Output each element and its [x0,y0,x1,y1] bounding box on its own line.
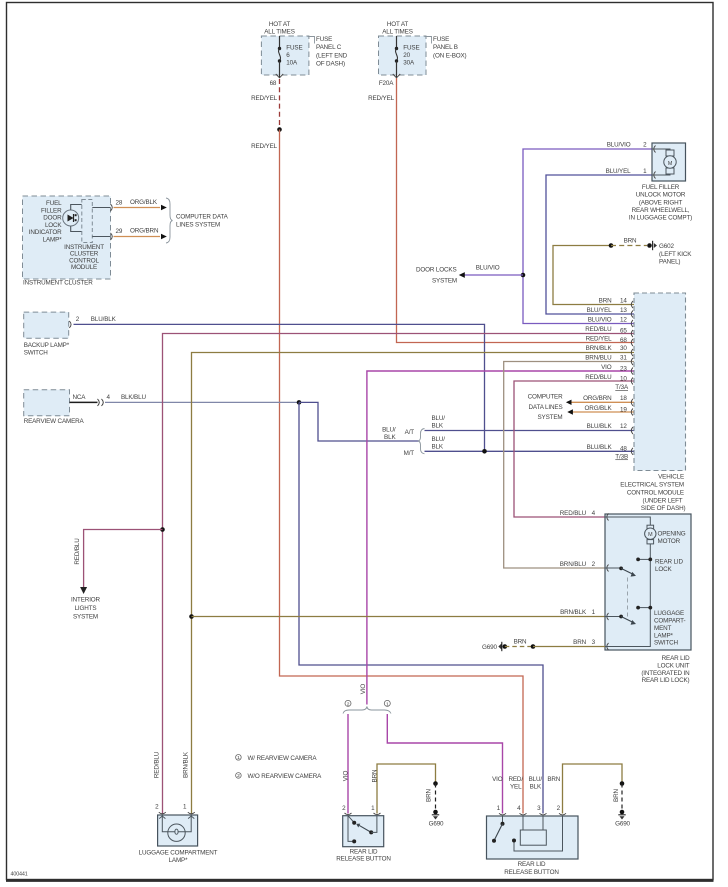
svg-text:(ON E-BOX): (ON E-BOX) [433,52,467,59]
svg-text:BRN: BRN [599,297,612,304]
svg-text:MOTOR: MOTOR [658,538,681,545]
svg-text:BLU/: BLU/ [529,776,543,783]
svg-text:BLU/VIO: BLU/VIO [607,142,631,149]
svg-text:RED/YEL: RED/YEL [251,143,278,150]
svg-text:(LEFT END: (LEFT END [316,52,348,59]
module pin connectors [631,301,633,455]
A/T M/T split brace [382,427,424,457]
svg-text:30: 30 [620,345,627,352]
svg-text:OF DASH): OF DASH) [316,61,345,68]
wire RED/BLU module pin 65 long run to lamp [163,334,635,814]
instrument cluster outer box [23,196,111,287]
junction BRN/BLK branch [189,614,194,619]
svg-text:23: 23 [620,365,627,372]
svg-text:BLU/YEL: BLU/YEL [606,168,631,175]
svg-text:BRN: BRN [613,788,620,801]
wire BRN/BLK branch to rear lid lock pin 1 [192,616,606,618]
svg-text:REARVIEW CAMERA: REARVIEW CAMERA [24,418,85,425]
wire BRN button 1 to ground [377,764,438,814]
svg-text:BRN/BLK: BRN/BLK [183,751,190,778]
svg-text:LUGGAGE COMPARTMENT: LUGGAGE COMPARTMENT [139,849,218,856]
rear lid release button 2 (w/o camera) [487,805,579,859]
svg-text:LAMP*: LAMP* [169,857,189,864]
svg-text:BRN/BLU: BRN/BLU [560,561,587,568]
svg-text:VIO: VIO [601,364,612,371]
svg-text:PANEL): PANEL) [659,259,680,266]
svg-text:ORG/BRN: ORG/BRN [583,395,612,402]
luggage compartment lamp switch [605,606,686,647]
fuse F6 symbol [270,36,284,87]
svg-text:LUGGAGE: LUGGAGE [654,610,684,617]
VIO split brace with options [343,700,391,713]
svg-text:COMPUTER DATA: COMPUTER DATA [176,213,229,220]
junction M/T with backup switch wire [482,449,487,454]
svg-text:LOCK: LOCK [655,566,672,573]
ground G690 for rear lid lock pin 3 [482,638,605,651]
opening motor symbol (rear lid) [605,517,686,545]
fuel filler unlock motor label [629,184,692,221]
svg-text:(UNDER LEFT: (UNDER LEFT [643,498,683,505]
vehicle electrical system control module box [620,293,685,512]
wire BLU/BLK A/T branch to module pin 12 [425,415,635,431]
button 2 labels [492,776,561,876]
button 2 switch internals [492,816,563,851]
junction RED/BLU interior lights branch [160,527,165,532]
svg-text:DOOR: DOOR [43,215,62,222]
svg-text:SIDE OF DASH): SIDE OF DASH) [641,505,686,512]
computer data lines system brace and label (left) [166,198,229,243]
rearview camera box [24,390,87,426]
wire BLU/VIO branch to door locks system [416,264,523,284]
svg-text:ALL TIMES: ALL TIMES [382,28,413,35]
wire ORG/BLK pin 28 to computer data lines [114,199,167,211]
svg-text:SWITCH: SWITCH [654,640,679,647]
wire BLU/BLK jog to A/T-M/T brace [299,402,420,441]
rear lid release button 1 (w/ camera) [342,805,384,847]
svg-text:FUEL: FUEL [46,200,62,207]
wire BRN button 2 to ground [563,764,625,814]
wire BRN/BLU module pin 31 to rear lid lock pin 2 [504,362,634,569]
svg-text:CONTROL MODULE: CONTROL MODULE [627,490,684,497]
fuse panel C box (fuse 6) [261,21,347,75]
wire BRN/BLK module pin 30 long run to lamp [192,353,635,814]
svg-text:LIGHTS: LIGHTS [75,605,97,612]
option legend [236,755,323,780]
svg-text:48: 48 [620,446,627,453]
svg-text:REAR LID: REAR LID [518,861,546,868]
internal common wire to pin 3 [605,544,650,647]
svg-text:65: 65 [620,327,627,334]
svg-text:BRN: BRN [624,238,637,245]
wire RED/YEL solid down-right to release button pin 4 [251,130,523,814]
wire BLK lead from camera [70,394,111,406]
svg-text:BACKUP LAMP*: BACKUP LAMP* [24,342,70,349]
svg-text:68: 68 [620,337,627,344]
svg-text:29: 29 [116,228,123,235]
junction at camera wire [297,400,302,405]
wire pin 28 lead inside cluster [92,199,123,211]
wire ORG/BRN module pin 18 to computer data lines [566,400,634,405]
svg-text:400441: 400441 [11,872,28,878]
svg-text:RED/BLU: RED/BLU [585,326,612,333]
ground symbol G690 (button 1) [429,815,444,828]
wire BRN module pin 14 to G602 [553,238,647,305]
rear lid lock pin labels [560,510,596,646]
svg-text:COMPUTER: COMPUTER [528,394,563,401]
backup lamp switch box [24,312,80,356]
svg-text:BLU/VIO: BLU/VIO [476,264,500,271]
svg-text:OPENING: OPENING [658,531,686,538]
svg-text:BRN/BLK: BRN/BLK [560,609,587,616]
svg-text:12: 12 [620,316,627,323]
svg-text:FILLER: FILLER [41,207,62,214]
svg-text:RELEASE BUTTON: RELEASE BUTTON [504,869,559,876]
svg-text:FUSE: FUSE [286,45,302,52]
svg-text:M: M [668,161,673,167]
svg-text:1: 1 [386,702,389,708]
wire VIO module pin 23 down to split [360,371,634,705]
svg-text:RED/YEL: RED/YEL [368,95,395,102]
svg-text:PANEL B: PANEL B [433,44,458,51]
svg-text:VIO: VIO [343,771,350,782]
svg-text:BRN/BLU: BRN/BLU [585,354,612,361]
fuel filler door lock indicator lamp (LED) [63,210,79,226]
svg-text:HOT AT: HOT AT [269,21,291,28]
wire BLU/YEL module pin 13 to fuel filler motor pin 1 [546,175,652,314]
wire BLU/VIO module pin 12 to fuel filler motor pin 2 [523,149,652,324]
svg-text:BLU/VIO: BLU/VIO [588,316,612,323]
svg-text:(LEFT KICK: (LEFT KICK [659,251,692,258]
svg-text:LOCK UNIT: LOCK UNIT [657,662,690,669]
svg-text:G690: G690 [615,820,630,827]
svg-text:NCA: NCA [73,394,87,401]
svg-text:DOOR LOCKS: DOOR LOCKS [416,267,457,274]
svg-text:M: M [648,532,653,538]
fuel filler unlock motor box [652,143,686,181]
opening motor symbol M (fuel filler) [664,150,676,174]
svg-text:REAR LID LOCK): REAR LID LOCK) [642,677,690,684]
svg-text:YEL: YEL [510,784,522,791]
wire RED/BLU branch to interior lights system [71,530,162,621]
svg-text:FUEL FILLER: FUEL FILLER [642,184,680,191]
svg-text:10A: 10A [286,59,298,66]
svg-text:14: 14 [620,297,627,304]
svg-text:REAR WHEELWELL,: REAR WHEELWELL, [632,207,690,214]
svg-text:BLU/BLK: BLU/BLK [587,444,613,451]
luggage lamp labels [139,751,218,864]
svg-text:BLK/BLU: BLK/BLU [121,394,146,401]
svg-text:MODULE: MODULE [71,264,97,271]
svg-text:RED/BLU: RED/BLU [154,751,161,778]
svg-text:G690: G690 [482,644,497,651]
svg-text:SWITCH: SWITCH [24,349,49,356]
svg-text:VEHICLE: VEHICLE [658,474,684,481]
lamp wiring to control module [71,205,82,232]
svg-text:BLK: BLK [530,784,542,791]
wire RED/YEL dashed from fuse 6 [251,79,279,129]
wire BLU/BLK down to release button pin 3 [299,402,543,813]
svg-text:W/O REARVIEW CAMERA: W/O REARVIEW CAMERA [248,773,323,780]
svg-text:13: 13 [620,307,627,314]
svg-text:A/T: A/T [405,429,415,436]
svg-text:REAR LID: REAR LID [350,848,378,855]
svg-text:REAR LID: REAR LID [655,558,683,565]
button 1 labels [336,769,391,863]
svg-text:FUSE: FUSE [316,36,332,43]
svg-text:SYSTEM: SYSTEM [73,614,98,621]
svg-text:W/ REARVIEW CAMERA: W/ REARVIEW CAMERA [248,755,318,762]
svg-text:FUSE: FUSE [403,45,419,52]
svg-text:ORG/BLK: ORG/BLK [130,199,158,206]
svg-text:SYSTEM: SYSTEM [538,414,563,421]
svg-text:ORG/BRN: ORG/BRN [130,228,159,235]
svg-text:RED/YEL: RED/YEL [251,95,278,102]
instrument cluster control module inner box [64,200,104,272]
wire RED/BLU module pin 10 to rear lid lock pin 4 [514,381,634,517]
svg-text:BLU/BLK: BLU/BLK [91,316,117,323]
svg-text:LINES SYSTEM: LINES SYSTEM [176,222,220,229]
module pin labels [583,297,629,460]
svg-text:BLK: BLK [432,423,444,430]
button 1 switch internals [348,816,377,844]
ground symbol G690 (button 2) [615,815,630,828]
diagram number 400441 [11,872,28,878]
wire BLU/BLK from backup lamp switch to M/T junction [74,316,485,451]
svg-text:10: 10 [620,375,627,382]
wire ORG/BRN pin 29 to computer data lines [114,228,167,240]
svg-text:30A: 30A [403,59,415,66]
svg-text:COMPART-: COMPART- [654,618,686,625]
wire RED/YEL from fuse 20 to module pin 68 [368,78,634,343]
svg-text:RED/BLU: RED/BLU [74,538,81,565]
svg-text:INTERIOR: INTERIOR [71,597,100,604]
svg-text:LAMP*: LAMP* [654,632,674,639]
svg-text:2: 2 [237,773,240,779]
svg-text:BLK: BLK [432,443,444,450]
svg-text:19: 19 [620,406,627,413]
svg-text:REAR LID: REAR LID [662,655,690,662]
svg-text:BLU/YEL: BLU/YEL [587,307,612,314]
svg-text:18: 18 [620,395,627,402]
svg-text:28: 28 [116,199,123,206]
svg-text:68: 68 [270,80,277,87]
svg-text:VIO: VIO [360,684,367,695]
svg-text:BLU/: BLU/ [382,427,396,434]
svg-text:T/3A: T/3A [615,384,629,391]
svg-text:G690: G690 [429,820,444,827]
svg-text:SYSTEM: SYSTEM [432,277,457,284]
svg-text:BRN: BRN [573,639,586,646]
svg-text:FUSE: FUSE [433,36,449,43]
svg-text:20: 20 [403,52,410,59]
svg-text:T/3B: T/3B [615,453,628,460]
svg-text:MENT: MENT [654,625,672,632]
svg-text:F20A: F20A [379,80,394,87]
svg-text:RED/BLU: RED/BLU [585,374,612,381]
svg-text:ELECTRICAL SYSTEM: ELECTRICAL SYSTEM [620,482,684,489]
rear lid lock unit box [605,514,691,651]
wire ORG/BLK module pin 19 to computer data lines [567,409,634,414]
wire BLU/BLK M/T branch to module pin 48 [425,436,635,452]
svg-text:DATA LINES: DATA LINES [529,404,563,411]
svg-text:ALL TIMES: ALL TIMES [264,28,295,35]
svg-text:INDICATOR: INDICATOR [29,229,62,236]
mechanical link dashed [627,578,629,618]
wire pin 29 lead inside cluster [92,228,123,240]
wire VIO branch 1 to release button (w/o camera) [387,714,502,814]
svg-text:1: 1 [237,755,240,761]
svg-text:(INTEGRATED IN: (INTEGRATED IN [641,670,690,677]
lamp symbol [159,816,194,842]
svg-text:BRN: BRN [547,776,560,783]
svg-text:VIO: VIO [492,776,503,783]
svg-text:BRN/BLK: BRN/BLK [586,345,613,352]
svg-text:RED/: RED/ [508,776,523,783]
svg-text:BRN: BRN [426,788,433,801]
svg-text:UNLOCK MOTOR: UNLOCK MOTOR [636,192,686,199]
rear lid lock unit label [641,655,690,684]
svg-text:BLU/BLK: BLU/BLK [587,423,613,430]
computer data lines system label (right) [528,394,563,421]
svg-text:INSTRUMENT CLUSTER: INSTRUMENT CLUSTER [23,280,93,287]
svg-text:BRN: BRN [514,638,527,645]
fuel filler motor pin labels [606,142,648,175]
svg-text:BLU/: BLU/ [432,436,446,443]
wire VIO branch 2 to release button (w/ camera) [347,714,349,814]
svg-text:RED/YEL: RED/YEL [586,335,613,342]
svg-text:31: 31 [620,354,627,361]
svg-text:(ABOVE RIGHT: (ABOVE RIGHT [639,199,683,206]
svg-text:BLK: BLK [384,434,396,441]
fuse F20 symbol [379,36,400,87]
svg-text:2: 2 [347,702,350,708]
wire BLK/BLU from camera connector to junction [105,394,299,403]
svg-text:ORG/BLK: ORG/BLK [585,405,613,412]
svg-text:IN LUGGAGE COMPT): IN LUGGAGE COMPT) [629,215,692,222]
svg-text:LAMP*: LAMP* [43,237,63,244]
rear lid lock switch [605,558,683,577]
svg-text:G602: G602 [659,243,674,250]
luggage compartment lamp box [155,803,197,846]
svg-text:BLU/: BLU/ [432,415,446,422]
ground connector G602 [647,241,692,266]
splice junction on RED/YEL [277,127,282,132]
fuse panel B box (fuse 20) [379,21,467,75]
svg-text:LOCK: LOCK [45,222,62,229]
svg-text:HOT AT: HOT AT [387,21,409,28]
svg-text:M/T: M/T [404,450,415,457]
svg-text:PANEL C: PANEL C [316,44,342,51]
svg-text:RED/BLU: RED/BLU [560,510,587,517]
junction BLU/VIO door locks branch [521,273,526,278]
svg-text:12: 12 [620,423,627,430]
svg-text:RELEASE BUTTON: RELEASE BUTTON [336,856,391,863]
